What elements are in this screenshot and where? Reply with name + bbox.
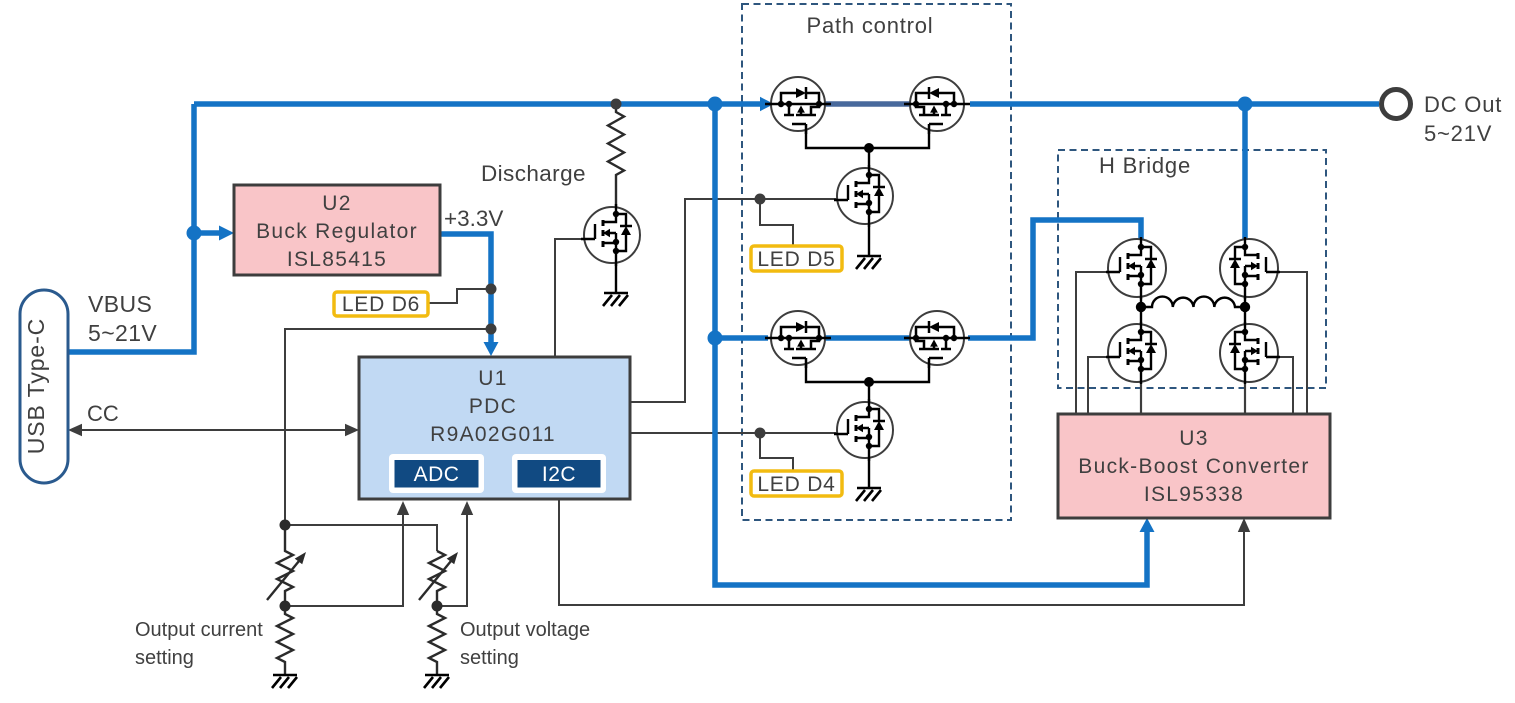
svg-text:R9A02G011: R9A02G011: [430, 423, 556, 446]
wire blue drop to TR fet: [1242, 104, 1248, 240]
node junction row1 gates: [864, 143, 874, 153]
wire H-bridge BR gate to U3: [1279, 357, 1293, 414]
wire row2 rail blue left: [715, 335, 768, 341]
wire LED D6: [428, 289, 491, 303]
transistor pass FET row1 right: [904, 77, 970, 134]
wire TL-BL link: [1140, 297, 1142, 325]
svg-text:U1: U1: [478, 367, 507, 390]
svg-text:DC Out: DC Out: [1424, 92, 1502, 117]
transistor discharge FET: [581, 204, 640, 266]
LED D4: [751, 471, 842, 496]
svg-text:ISL95338: ISL95338: [1144, 483, 1244, 506]
ground discharge: [603, 293, 628, 306]
svg-text:Output current: Output current: [135, 619, 263, 641]
wire BR source to U3: [1244, 382, 1246, 414]
svg-text:LED D6: LED D6: [342, 293, 420, 316]
transistor pass FET row1 left: [765, 77, 831, 134]
node junction right pot bottom: [432, 601, 443, 612]
svg-text:5~21V: 5~21V: [1424, 121, 1492, 146]
node junction row2: [708, 331, 723, 346]
inductor L1: [1141, 297, 1245, 307]
wire blue main vertical and run to U3: [715, 104, 1147, 585]
potentiometer output current: [277, 525, 293, 606]
ground right pot: [424, 675, 449, 688]
transistor H-bridge top-left: [1106, 237, 1166, 299]
transistor H-bridge bottom-left: [1106, 322, 1166, 384]
wire LED D4: [760, 433, 793, 471]
svg-text:VBUS: VBUS: [88, 291, 152, 317]
wire rail between pass fets row1: [825, 101, 910, 107]
wire Q6 drain: [868, 382, 870, 404]
resistor discharge: [608, 104, 624, 207]
transistor pass FET row2 left: [765, 311, 831, 368]
wire I2C from U1 to U3: [559, 499, 1244, 605]
node CC arrow left: [68, 424, 82, 436]
ground Q5: [856, 256, 881, 269]
wire row2 rail to H bridge: [968, 220, 1141, 338]
wire Q5 source to ground: [868, 222, 870, 256]
wire pot top link: [285, 525, 437, 551]
transistor H-bridge bottom-right: [1220, 322, 1280, 384]
svg-text:H Bridge: H Bridge: [1099, 153, 1191, 178]
Path control dashed box: [742, 4, 1011, 520]
ground left pot: [272, 675, 297, 688]
wire Q5 drain: [868, 148, 870, 170]
svg-text:Buck Regulator: Buck Regulator: [256, 220, 418, 243]
node junction discharge tap: [611, 99, 622, 110]
potentiometer output voltage: [429, 551, 445, 606]
block I2C: [512, 454, 606, 493]
svg-text:5~21V: 5~21V: [88, 320, 157, 346]
node arrow into path control: [760, 97, 774, 111]
wire +3.3V blue U2 to U1: [440, 234, 491, 344]
wire U1 to Q5 gate: [630, 199, 838, 402]
svg-text:setting: setting: [460, 647, 519, 669]
H Bridge dashed box: [1058, 150, 1326, 388]
block U2 Buck Regulator: [234, 185, 440, 275]
svg-text:Discharge: Discharge: [481, 161, 586, 186]
transistor Q6: [834, 399, 893, 461]
node junction inductor right: [1240, 302, 1250, 312]
node ADC arrow right: [461, 501, 473, 515]
wire pot feed from +3.3V: [285, 329, 491, 525]
LED D6: [334, 292, 428, 316]
svg-text:Output voltage: Output voltage: [460, 619, 590, 641]
node junction inductor left: [1136, 302, 1146, 312]
transistor pass FET row2 right: [904, 311, 970, 368]
wire TR-BR link: [1244, 297, 1246, 325]
node junction LED D6: [486, 284, 497, 295]
wire BL source to U3: [1140, 382, 1142, 414]
svg-text:I2C: I2C: [542, 463, 576, 486]
node junction row2 gates: [864, 377, 874, 387]
svg-text:ADC: ADC: [414, 463, 460, 486]
node junction pot feed: [486, 324, 497, 335]
wire left pot to ADC: [285, 512, 403, 606]
resistor below left pot: [277, 606, 293, 675]
ground Q6: [856, 488, 881, 501]
transistor H-bridge top-right: [1220, 237, 1280, 299]
node junction left pot bottom: [280, 601, 291, 612]
block U3 Buck-Boost Converter: [1058, 414, 1330, 518]
resistor below right pot: [429, 606, 445, 675]
wire H-bridge TL gate to U3: [1076, 272, 1107, 414]
svg-text:Path control: Path control: [806, 13, 933, 38]
connector USB Type-C: [20, 290, 68, 483]
svg-text:ISL85415: ISL85415: [287, 248, 387, 271]
block ADC: [389, 454, 484, 493]
wire Q6 source to ground: [868, 456, 870, 488]
wire discharge source to ground: [615, 261, 617, 293]
svg-text:+3.3V: +3.3V: [444, 206, 503, 231]
LED D5: [751, 246, 842, 271]
wire LED D5: [760, 199, 793, 246]
node junction left pot top: [280, 520, 291, 531]
svg-text:Buck-Boost Converter: Buck-Boost Converter: [1078, 455, 1309, 478]
wire top rail blue left: [194, 101, 762, 107]
node CC arrow right: [345, 424, 359, 436]
svg-text:PDC: PDC: [469, 395, 517, 418]
svg-text:setting: setting: [135, 647, 194, 669]
wire H-bridge TR gate to U3: [1279, 272, 1307, 414]
wire rail between pass fets row2: [825, 335, 910, 341]
svg-text:CC: CC: [87, 401, 119, 426]
wire blue into U2: [194, 230, 221, 236]
wire U1 to Q6 gate: [630, 432, 838, 434]
wire CC: [78, 429, 349, 431]
wire pass gates row1: [806, 128, 929, 148]
wire H-bridge BL gate to U3: [1088, 357, 1107, 414]
wire pass gates row2: [806, 362, 929, 382]
node junction Q6 gate: [755, 428, 766, 439]
svg-text:USB Type-C: USB Type-C: [23, 318, 49, 454]
node junction rail main: [708, 97, 723, 112]
node I2C arrow into U3: [1238, 518, 1250, 532]
wire discharge gate from U1: [555, 239, 586, 357]
node junction rail DC: [1238, 97, 1253, 112]
svg-text:LED D4: LED D4: [757, 473, 835, 496]
wire top rail blue right: [970, 101, 1379, 107]
transistor Q5: [834, 165, 893, 227]
wire VBUS blue from USB: [68, 104, 194, 352]
svg-text:U3: U3: [1179, 427, 1208, 450]
node junction Q5 gate: [755, 194, 766, 205]
node junction VBUS-U2: [187, 226, 202, 241]
wire right pot to ADC: [437, 512, 467, 606]
svg-text:LED D5: LED D5: [757, 248, 835, 271]
terminal DC Out: [1382, 90, 1411, 119]
block U1 PDC: [359, 357, 630, 499]
svg-text:U2: U2: [322, 192, 351, 215]
node ADC arrow left: [397, 501, 409, 515]
